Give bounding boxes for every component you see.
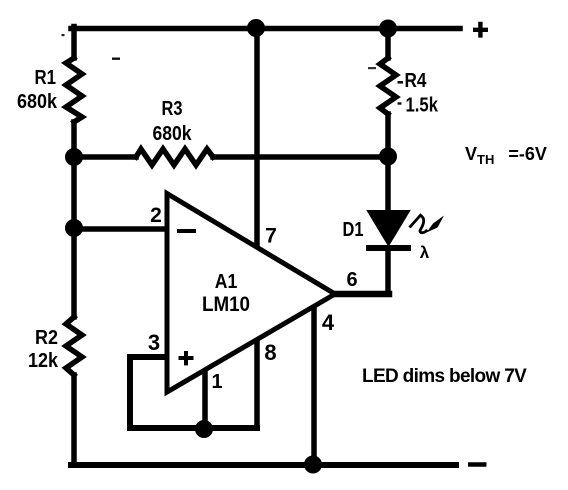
wire left column upper <box>71 27 77 59</box>
resistor R3 <box>136 149 213 165</box>
wire pin 1 <box>202 371 208 428</box>
svg-text:680k: 680k <box>17 91 58 113</box>
wire pin 4 <box>311 309 317 464</box>
resistor R1 <box>66 58 82 122</box>
svg-text:λ: λ <box>420 243 430 262</box>
resistor R2 <box>66 317 82 375</box>
op-amp minus input symbol <box>177 229 196 233</box>
scan dash left of R4 zigzag <box>368 67 376 69</box>
svg-text:LED dims below 7V: LED dims below 7V <box>362 366 527 387</box>
svg-text:2: 2 <box>150 204 162 227</box>
scan dash left of 1.5k label <box>398 102 402 104</box>
svg-text:1: 1 <box>211 371 222 393</box>
svg-text:7: 7 <box>265 225 277 248</box>
svg-text:R4: R4 <box>405 70 428 92</box>
wire R4 top lead <box>385 29 391 59</box>
svg-text:4: 4 <box>322 310 335 335</box>
wire node to LED anode <box>385 158 391 212</box>
op-amp A1 <box>167 194 335 393</box>
svg-text:6: 6 <box>346 269 357 291</box>
wire pin 3 feedback loop <box>130 357 257 428</box>
svg-text:R3: R3 <box>162 98 183 120</box>
node junction dot top pin7 <box>247 19 265 37</box>
scan speck near top-left corner <box>62 34 65 36</box>
node junction dot pin4 bottom <box>304 456 322 474</box>
wire R4 bottom lead <box>385 114 391 158</box>
svg-text:1.5k: 1.5k <box>406 95 439 117</box>
svg-text:LM10: LM10 <box>202 293 250 316</box>
svg-text:D1: D1 <box>343 219 364 241</box>
wire pin 2 input <box>76 226 166 232</box>
svg-text:3: 3 <box>148 330 160 355</box>
wire R3 row right <box>213 154 388 160</box>
op-amp plus input symbol <box>179 351 194 365</box>
scan dash left of R1 top <box>112 58 120 60</box>
resistor R4 <box>380 58 396 114</box>
wire pin 7 <box>254 29 260 246</box>
svg-text:12k: 12k <box>28 350 59 372</box>
wire left column middle <box>71 122 77 317</box>
wire LED cathode to output <box>385 248 391 292</box>
node junction dot left R3 <box>65 148 83 166</box>
svg-text:A1: A1 <box>215 271 238 293</box>
scan dash left of R4 label <box>398 81 404 84</box>
node junction dot top R4 <box>379 20 397 38</box>
node junction dot R3 right <box>379 148 397 166</box>
svg-text:R1: R1 <box>35 67 57 89</box>
diode D1 cathode bar <box>366 245 411 251</box>
wire top rail <box>71 26 460 32</box>
terminal - <box>468 462 487 467</box>
wire left column lower <box>71 375 77 465</box>
wire output pin 6 <box>335 291 389 298</box>
svg-text:680k: 680k <box>153 123 193 145</box>
wire R3 row left <box>74 154 136 160</box>
node junction dot pin1 loop <box>195 420 213 438</box>
node junction dot left pin2 <box>65 219 83 237</box>
svg-text:R2: R2 <box>35 327 58 349</box>
wire bottom rail <box>71 462 456 468</box>
svg-text:8: 8 <box>264 340 276 365</box>
LED light arrow squiggle <box>410 215 428 233</box>
diode D1 (LED) <box>368 211 409 245</box>
terminal + <box>473 22 488 38</box>
wire pin 8 <box>254 341 260 428</box>
